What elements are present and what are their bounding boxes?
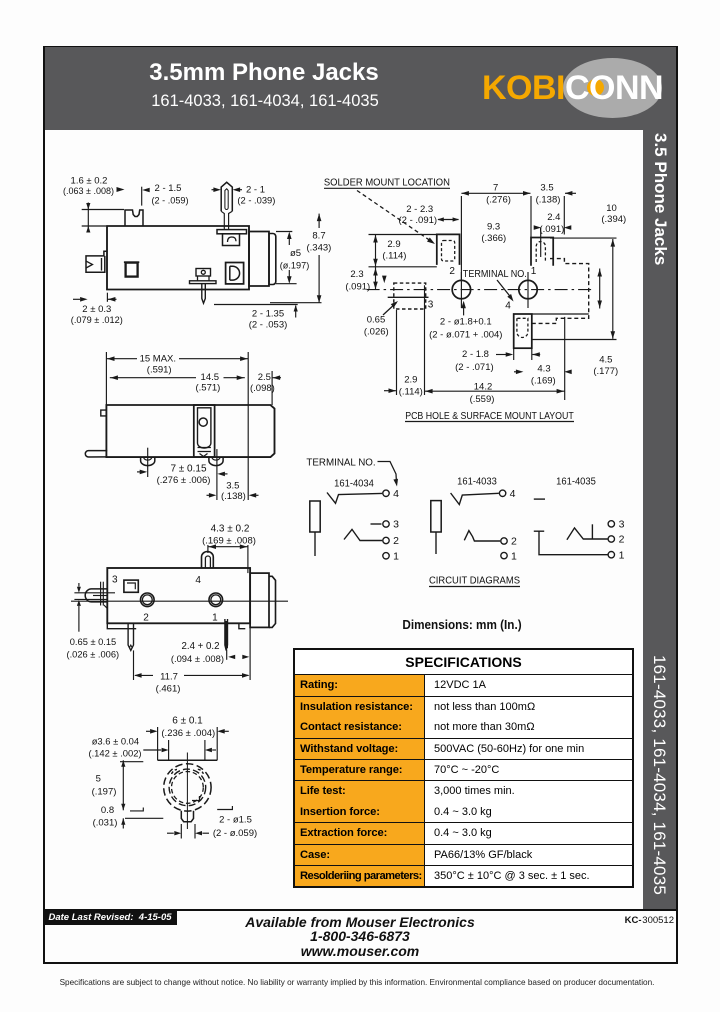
- drawing 1: jack side view body: [107, 226, 249, 290]
- drawing 1: barrel (bushing): [249, 232, 269, 287]
- drawing 1: top pin box detail: [223, 234, 240, 246]
- table row Case: [295, 844, 632, 865]
- svg-text:3.5: 3.5: [540, 182, 553, 193]
- table row Life test: [295, 780, 632, 801]
- svg-text:2.4 + 0.2: 2.4 + 0.2: [182, 641, 220, 652]
- subtitle part numbers: [0, 92, 530, 111]
- hole terminal 1 circle: [519, 280, 537, 298]
- svg-text:(2 - .071): (2 - .071): [455, 362, 494, 373]
- svg-text:10: 10: [606, 203, 617, 214]
- drawing 1: top pin flange: [217, 230, 247, 234]
- drawing 4: left terminal 3 clip: [85, 589, 107, 602]
- svg-text:2 - 2.3: 2 - 2.3: [406, 204, 433, 215]
- dimension dia 5 (.197): [276, 231, 292, 233]
- svg-text:5: 5: [96, 773, 101, 784]
- disclaimer: [0, 978, 714, 987]
- svg-text:4.5: 4.5: [599, 354, 612, 365]
- svg-text:(.169 ± .008): (.169 ± .008): [202, 536, 256, 547]
- circuit 161-4035 terminal 2: [608, 536, 614, 542]
- PCB centerline (dash-dot): [367, 289, 593, 291]
- svg-text:14.2: 14.2: [474, 381, 493, 392]
- footer box bottom border: [43, 962, 678, 964]
- svg-text:Dimensions: mm (In.): Dimensions: mm (In.): [402, 617, 521, 632]
- svg-text:PCB HOLE & SURFACE MOUNT LAYOU: PCB HOLE & SURFACE MOUNT LAYOUT: [405, 411, 574, 422]
- dimension 7 +/- 0.15 pin spacing: [147, 448, 149, 477]
- svg-text:CIRCUIT DIAGRAMS: CIRCUIT DIAGRAMS: [429, 576, 520, 587]
- dimension 3.5 (.138) pin offset: [209, 493, 217, 498]
- dimension 2.5 (.098): [271, 371, 273, 405]
- specifications table: [293, 648, 634, 888]
- svg-text:(.114): (.114): [382, 250, 406, 261]
- svg-text:(.079 ± .012): (.079 ± .012): [71, 315, 123, 326]
- svg-text:161-4035: 161-4035: [556, 477, 596, 488]
- svg-text:(.091): (.091): [345, 281, 370, 292]
- svg-text:4: 4: [505, 301, 511, 312]
- frame left border: [43, 46, 45, 963]
- svg-text:2 - 1.8: 2 - 1.8: [462, 349, 489, 360]
- svg-text:161-4034: 161-4034: [334, 479, 374, 490]
- circuit 161-4035 tip stub: [534, 498, 545, 500]
- KOBICONN logo: [563, 58, 662, 118]
- dimension 1.6 +/- 0.2 top left: [82, 209, 124, 211]
- svg-text:1: 1: [511, 550, 517, 562]
- drawing 1: bottom pin flange: [190, 281, 217, 284]
- drawing 1: top-left mounting tab with V notch: [125, 210, 143, 226]
- sidebar rotated text bottom: [643, 655, 677, 955]
- frame bottom border of main area: [43, 909, 678, 911]
- drawing 4: barrel side view 2: [250, 573, 269, 627]
- svg-text:2 - 1.35: 2 - 1.35: [252, 308, 284, 319]
- drawing 4: bottom-left step: [107, 623, 136, 628]
- circuit 161-4033 terminal 1: [501, 552, 507, 558]
- drawing 1: D-shaped latch box right side: [226, 263, 244, 284]
- svg-text:3: 3: [112, 575, 118, 586]
- drawing 5: hook detail lower right: [192, 796, 200, 801]
- svg-text:2: 2: [393, 535, 399, 547]
- svg-text:(.591): (.591): [147, 364, 172, 375]
- svg-text:2 ± 0.3: 2 ± 0.3: [82, 304, 111, 315]
- dimension 0.8 (.031): [130, 808, 143, 811]
- pad terminal 1 (top-right): [531, 238, 553, 266]
- svg-text:11.7: 11.7: [160, 672, 178, 683]
- drawing 1: bottom pin box with rivet: [196, 269, 211, 277]
- svg-text:(.114): (.114): [399, 386, 423, 397]
- sidebar dark bar: [643, 129, 676, 911]
- drawing 5: front view flat top line: [158, 759, 218, 761]
- circuit 161-4035 terminal 1: [608, 552, 614, 558]
- svg-text:8.7: 8.7: [312, 231, 325, 242]
- svg-text:(.236 ± .004): (.236 ± .004): [161, 728, 215, 739]
- svg-text:2.4: 2.4: [547, 212, 560, 223]
- dimension 4.3 +/- 0.2 top: [207, 545, 209, 553]
- drawing 3: left small notch: [101, 410, 107, 416]
- table row Insertion force: [295, 801, 632, 822]
- svg-text:(.094 ± .008): (.094 ± .008): [171, 653, 224, 664]
- svg-text:1: 1: [212, 613, 218, 624]
- svg-text:(2 - ø.071 + .004): (2 - ø.071 + .004): [429, 329, 502, 340]
- svg-text:(2 - .091): (2 - .091): [399, 215, 438, 226]
- svg-text:(.138): (.138): [536, 195, 561, 206]
- drawing 5: bottom tab (pins front view): [181, 811, 193, 822]
- dimension 11.7 (.461): [133, 650, 135, 680]
- svg-text:4.3 ± 0.2: 4.3 ± 0.2: [211, 524, 250, 535]
- svg-text:(2 - ø.059): (2 - ø.059): [213, 828, 257, 839]
- dimension 3.5 (.138): [565, 191, 573, 196]
- dimension 0.65 +/- 0.15 left: [74, 592, 115, 594]
- table row Insulation resistance: [295, 696, 632, 717]
- svg-text:2.9: 2.9: [404, 374, 417, 385]
- svg-text:1: 1: [393, 551, 399, 563]
- svg-text:(.142 ± .002): (.142 ± .002): [88, 748, 141, 759]
- dimension 2 +/- 0.3 bottom left: [106, 293, 108, 302]
- svg-text:(.026): (.026): [364, 327, 389, 338]
- svg-text:(.197): (.197): [92, 787, 117, 798]
- svg-text:7: 7: [493, 182, 498, 193]
- svg-text:6 ± 0.1: 6 ± 0.1: [172, 716, 203, 727]
- svg-text:2 - 1.5: 2 - 1.5: [155, 183, 182, 194]
- drawing 1: left clip terminal: [86, 251, 107, 272]
- svg-text:2.3: 2.3: [350, 269, 363, 280]
- svg-text:(.031): (.031): [93, 817, 118, 828]
- svg-text:(2 - .059): (2 - .059): [152, 195, 189, 206]
- svg-text:(.559): (.559): [470, 394, 495, 405]
- dimension 14.5 (.571): [110, 377, 196, 379]
- drawing 4: centerline: [71, 600, 288, 602]
- drawing 5: vertical centerline: [186, 753, 188, 830]
- svg-text:0.65 ± 0.15: 0.65 ± 0.15: [70, 637, 116, 647]
- drawing 4: pin 2: [128, 623, 133, 650]
- dashed jack body outline on PCB: [532, 259, 589, 324]
- dimension 14.2 (.559): [564, 317, 566, 400]
- svg-text:(.461): (.461): [156, 684, 181, 695]
- table row Rating: [295, 675, 632, 696]
- svg-text:(.276): (.276): [486, 195, 511, 206]
- circuit 161-4034 terminal 3: [383, 521, 389, 527]
- dimension 5 (.197) height: [120, 761, 143, 763]
- table row Withstand voltage: [295, 738, 632, 759]
- svg-text:2 - 1: 2 - 1: [246, 184, 265, 195]
- drawing 4: rivet circle 2: [141, 593, 155, 607]
- circuit 161-4033 ring switch to terminal 2: [464, 531, 500, 541]
- terminal 3 solid locating lines: [388, 296, 429, 298]
- circuit 161-4035 terminal 3 contact line: [591, 524, 593, 539]
- circuit 161-4034 terminal 4: [383, 490, 389, 496]
- circuit 161-4033 tip switch to terminal 4: [451, 493, 499, 505]
- svg-text:(.091): (.091): [539, 224, 564, 235]
- svg-text:4: 4: [393, 488, 399, 500]
- drawing 3: jack top view body: [106, 405, 274, 457]
- frame right border: [676, 46, 678, 963]
- drawing 4: bottom-right step: [239, 623, 245, 628]
- title 3.5mm Phone Jacks: [0, 59, 528, 87]
- dimension dia 3.6 +/- 0.04: [168, 740, 170, 761]
- dimension 2 - 1.5: [141, 187, 143, 206]
- circuit 161-4035 sleeve T contact to terminal 1: [534, 531, 608, 555]
- circuit 161-4035 terminal 3: [608, 521, 614, 527]
- leader from solder mount label to pad 2: [357, 191, 432, 242]
- svg-text:0.65: 0.65: [367, 314, 386, 325]
- drawing 4: top pin 4: [202, 552, 214, 569]
- table row Extraction force: [295, 822, 632, 843]
- drawing 4: rivet circle 1: [209, 593, 223, 607]
- pad terminal 4 (bottom): [514, 314, 532, 348]
- svg-text:(.343): (.343): [306, 243, 331, 254]
- circuit 161-4033 sleeve contact: [431, 501, 441, 532]
- svg-text:2.5: 2.5: [258, 372, 271, 383]
- svg-text:ø5: ø5: [290, 248, 301, 259]
- circuit 161-4034 sleeve contact: [310, 501, 320, 532]
- footer mouser lines: [0, 915, 720, 958]
- circuit 161-4033 terminal 4: [499, 490, 505, 496]
- table row Contact resistance: [295, 717, 632, 738]
- drawing 5: front view inner ring: [172, 772, 204, 804]
- KC document number: [540, 915, 674, 926]
- svg-text:2: 2: [143, 613, 149, 624]
- svg-text:(.177): (.177): [593, 366, 618, 377]
- svg-text:3: 3: [428, 300, 434, 311]
- svg-text:2: 2: [619, 534, 625, 546]
- svg-text:4: 4: [195, 575, 201, 586]
- svg-text:4: 4: [510, 488, 516, 500]
- svg-text:(.366): (.366): [481, 233, 506, 244]
- svg-text:(ø.197): (ø.197): [280, 260, 310, 271]
- dimension 2 - 1 (top pin): [213, 187, 221, 192]
- svg-text:ø3.6 ± 0.04: ø3.6 ± 0.04: [92, 735, 139, 746]
- svg-text:0.8: 0.8: [101, 805, 114, 816]
- svg-text:SOLDER MOUNT LOCATION: SOLDER MOUNT LOCATION: [324, 178, 450, 189]
- drawing 3: left pin (top view): [85, 451, 107, 457]
- table header SPECIFICATIONS: [295, 650, 632, 675]
- drawing 4: jack side view 2 body: [107, 568, 250, 623]
- drawing 3: center slot with rivet hole: [194, 405, 215, 457]
- svg-text:2 - ø1.5: 2 - ø1.5: [219, 814, 252, 825]
- drawing 5: slot detail upper-right: [198, 769, 204, 774]
- svg-text:(.169): (.169): [531, 375, 556, 386]
- page header dark bar: [43, 46, 678, 130]
- sidebar rotated text top: [643, 133, 677, 433]
- circuit 161-4034 terminal 3 stub: [371, 523, 382, 525]
- svg-text:2.9: 2.9: [387, 239, 400, 250]
- circuit 161-4034 terminal 2: [383, 537, 389, 543]
- svg-text:3.5: 3.5: [226, 481, 239, 492]
- dimension 15 MAX. (.591): [105, 352, 107, 405]
- svg-text:2 - ø1.8+0.1: 2 - ø1.8+0.1: [440, 317, 492, 328]
- drawing 3: bottom pin right: [209, 457, 223, 466]
- drawing 1: square hole in housing: [126, 263, 138, 277]
- drawing 5: front view middle ring: [169, 769, 206, 806]
- svg-text:(.063 ± .008): (.063 ± .008): [63, 186, 114, 197]
- svg-text:(.276 ± .006): (.276 ± .006): [157, 475, 211, 486]
- svg-text:1: 1: [619, 549, 625, 561]
- circuit 161-4035 ring switch to terminal 2: [567, 528, 608, 540]
- dimension 8.7 (.343) height: [318, 214, 320, 228]
- svg-text:2: 2: [449, 266, 455, 277]
- svg-text:2: 2: [511, 536, 517, 548]
- pad terminal 3 dashed (solder mount): [394, 283, 426, 309]
- svg-text:(2 - .053): (2 - .053): [249, 320, 288, 331]
- drawing 1: top pin (terminal): [221, 182, 232, 211]
- svg-text:9.3: 9.3: [487, 221, 500, 232]
- svg-text:15 MAX.: 15 MAX.: [140, 354, 176, 365]
- circuit 161-4033 terminal 2: [501, 538, 507, 544]
- svg-text:(.098): (.098): [250, 383, 275, 394]
- drawing 4: pin 1: [225, 619, 228, 650]
- svg-text:(.571): (.571): [195, 382, 220, 393]
- svg-text:4.3: 4.3: [537, 363, 550, 374]
- drawing 5: front view outer ring: [164, 764, 211, 811]
- table row Temperature range: [295, 759, 632, 780]
- dimension 7 (.276): [461, 192, 530, 194]
- dimension 2.3 (.091) left: [373, 282, 378, 290]
- drawing 3: bottom pin left: [141, 457, 155, 466]
- date last revised bar: [45, 911, 177, 925]
- circuit 161-4034 ring switch to terminal 2: [344, 529, 382, 540]
- svg-text:7 ± 0.15: 7 ± 0.15: [170, 464, 207, 475]
- drawing 5: slot detail upper-left: [172, 770, 178, 775]
- pad terminal 2 (top-left): [437, 234, 460, 265]
- svg-text:(2 - .039): (2 - .039): [237, 196, 275, 207]
- circuit 161-4034 terminal 1: [383, 553, 389, 559]
- drawing 4: square hole: [124, 580, 138, 592]
- svg-text:(.138): (.138): [221, 491, 246, 502]
- svg-text:(.026 ± .006): (.026 ± .006): [66, 650, 119, 660]
- svg-text:161-4033: 161-4033: [457, 477, 497, 488]
- svg-text:(.394): (.394): [601, 214, 626, 225]
- hole terminal 2 circle: [452, 280, 470, 298]
- dimension 2 - 1.35 bottom pin: [214, 304, 298, 306]
- svg-text:3: 3: [393, 519, 399, 531]
- svg-text:3: 3: [619, 519, 625, 531]
- table row Resolderiing parameters: [295, 865, 632, 886]
- dimension 2 - dia1.5 pins: [217, 806, 232, 810]
- svg-text:1: 1: [531, 266, 537, 277]
- circuit 161-4034 tip switch to terminal 4: [327, 493, 382, 504]
- dimension 2.9 (.114) upper left: [369, 234, 437, 236]
- drawing 1: bottom pin stem: [202, 284, 206, 304]
- svg-text:TERMINAL NO.: TERMINAL NO.: [463, 269, 527, 280]
- svg-text:TERMINAL NO.: TERMINAL NO.: [306, 458, 375, 469]
